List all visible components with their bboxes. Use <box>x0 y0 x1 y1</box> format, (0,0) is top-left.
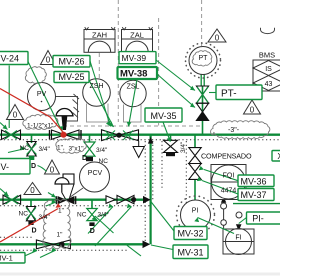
svg-text:1": 1" <box>58 208 65 215</box>
svg-text:MV-37: MV-37 <box>241 190 267 200</box>
svg-text:ZSL: ZSL <box>127 84 140 91</box>
svg-text:MV-36: MV-36 <box>241 177 267 187</box>
svg-text:4474: 4474 <box>221 188 237 195</box>
svg-text:D: D <box>32 228 37 235</box>
svg-text:MV-24: MV-24 <box>0 54 19 64</box>
svg-text:IS: IS <box>265 66 272 73</box>
svg-text:NC: NC <box>19 211 29 218</box>
svg-text:FQI: FQI <box>223 173 235 180</box>
svg-text:MV-32: MV-32 <box>177 229 203 239</box>
svg-text:43: 43 <box>265 81 273 88</box>
svg-text:MV-25: MV-25 <box>58 72 84 82</box>
svg-text:MV-: MV- <box>0 162 9 172</box>
svg-text:1",: 1", <box>57 145 65 152</box>
svg-text:3/4": 3/4" <box>39 214 51 221</box>
svg-text:0: 0 <box>250 106 255 115</box>
svg-text:MV-35: MV-35 <box>150 111 176 121</box>
svg-text:PT: PT <box>199 55 209 62</box>
svg-text:0: 0 <box>13 111 18 120</box>
svg-text:0: 0 <box>215 34 220 43</box>
svg-text:PI-: PI- <box>252 214 264 224</box>
svg-text:3/4": 3/4" <box>98 212 110 219</box>
svg-text:3/4": 3/4" <box>180 141 187 153</box>
svg-text:D: D <box>31 163 36 170</box>
svg-text:D: D <box>90 228 95 235</box>
svg-text:NC: NC <box>20 145 30 152</box>
svg-text:1-1/2"x1": 1-1/2"x1" <box>27 123 54 130</box>
svg-text:XV: XV <box>277 151 280 161</box>
svg-text:MV-38: MV-38 <box>120 68 147 79</box>
svg-text:NC: NC <box>99 158 109 165</box>
svg-text:MV-39: MV-39 <box>122 53 147 63</box>
svg-text:-3"-: -3"- <box>228 127 240 134</box>
svg-text:NC: NC <box>77 212 87 219</box>
svg-text:MV-1: MV-1 <box>0 254 13 263</box>
svg-text:3/4": 3/4" <box>39 146 51 153</box>
svg-text:BMS: BMS <box>259 51 275 60</box>
svg-text:1": 1" <box>57 232 64 239</box>
svg-text:ZAL: ZAL <box>130 31 144 40</box>
svg-text:D: D <box>82 155 87 162</box>
svg-text:0: 0 <box>46 56 51 65</box>
svg-text:0: 0 <box>30 186 35 195</box>
svg-text:ZAH: ZAH <box>92 31 107 40</box>
svg-text:0: 0 <box>50 166 55 175</box>
svg-text:PI: PI <box>192 208 199 215</box>
svg-text:3/4": 3/4" <box>96 147 108 154</box>
svg-text:PV: PV <box>37 91 47 98</box>
svg-text:MV-26: MV-26 <box>58 57 84 67</box>
svg-text:FI: FI <box>235 235 241 242</box>
svg-text:COMPENSADO: COMPENSADO <box>201 152 252 161</box>
svg-text:ZSH: ZSH <box>90 83 104 90</box>
svg-text:PT-: PT- <box>221 89 237 100</box>
svg-text:3"x1": 3"x1" <box>69 146 85 153</box>
svg-text:PCV: PCV <box>88 170 103 177</box>
svg-text:MV-31: MV-31 <box>177 248 203 258</box>
